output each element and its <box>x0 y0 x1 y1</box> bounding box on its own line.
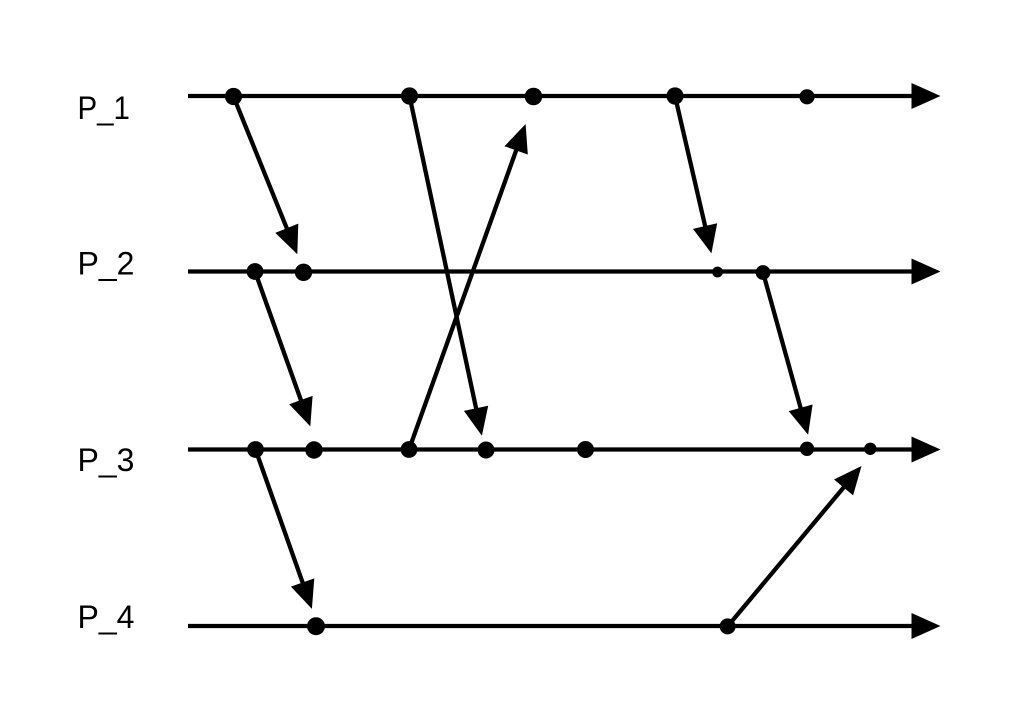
event node e3f <box>800 442 814 456</box>
timeline P_4 arrowhead <box>912 613 941 639</box>
event node e1e <box>799 89 814 104</box>
event node e3b <box>305 441 322 458</box>
message arrow m1 P_1->P_2 head <box>275 224 298 255</box>
message arrow m6 P_2->P_3 wire <box>763 273 801 411</box>
event node e4a <box>307 617 325 635</box>
event node e2b <box>295 264 312 281</box>
event node e3g <box>864 443 876 455</box>
timeline P_4 axis wire <box>188 624 915 628</box>
message arrow m5 P_1->P_2 wire <box>675 96 706 229</box>
message arrow m4 P_3->P_1 head <box>505 124 528 155</box>
event node e1c <box>525 88 543 106</box>
svg-text:P_4: P_4 <box>78 599 135 635</box>
event node e3e <box>577 441 594 458</box>
event node e2c <box>712 267 723 278</box>
timeline P_3 axis wire <box>188 447 915 451</box>
timeline P_1 axis wire <box>188 94 915 98</box>
event node e1b <box>401 87 418 104</box>
message arrow m8 P_4->P_3 head <box>834 466 862 495</box>
svg-text:P_3: P_3 <box>78 442 135 478</box>
event node e1d <box>666 87 683 104</box>
message arrow m2 P_2->P_3 head <box>289 396 312 427</box>
message arrow m3 P_1->P_3 head <box>464 406 488 436</box>
timeline P_3 arrowhead <box>912 437 941 463</box>
message arrow m5 P_1->P_2 head <box>693 223 717 253</box>
message arrow m6 P_2->P_3 head <box>789 405 813 435</box>
event node e1a <box>225 88 242 105</box>
message arrow m4 P_3->P_1 wire <box>409 148 517 450</box>
timeline P_2 arrowhead <box>912 259 941 285</box>
message arrow m2 P_2->P_3 wire <box>255 272 302 403</box>
message arrow m3 P_1->P_3 wire <box>410 96 477 411</box>
timeline P_1 arrowhead <box>912 83 941 109</box>
timeline P_2 axis wire <box>188 269 915 273</box>
message arrow m7 P_3->P_4 head <box>291 578 314 609</box>
message arrow m1 P_1->P_2 wire <box>234 97 288 232</box>
message arrow m8 P_4->P_3 wire <box>728 485 846 626</box>
event node e3a <box>247 441 264 458</box>
event node e3c <box>401 441 418 458</box>
event node e4b <box>720 618 736 634</box>
message arrow m7 P_3->P_4 wire <box>256 450 304 586</box>
event node e2a <box>247 263 264 280</box>
event node e2d <box>756 265 771 280</box>
event node e3d <box>478 442 495 459</box>
svg-text:P_1: P_1 <box>78 90 130 126</box>
svg-text:P_2: P_2 <box>78 246 135 282</box>
